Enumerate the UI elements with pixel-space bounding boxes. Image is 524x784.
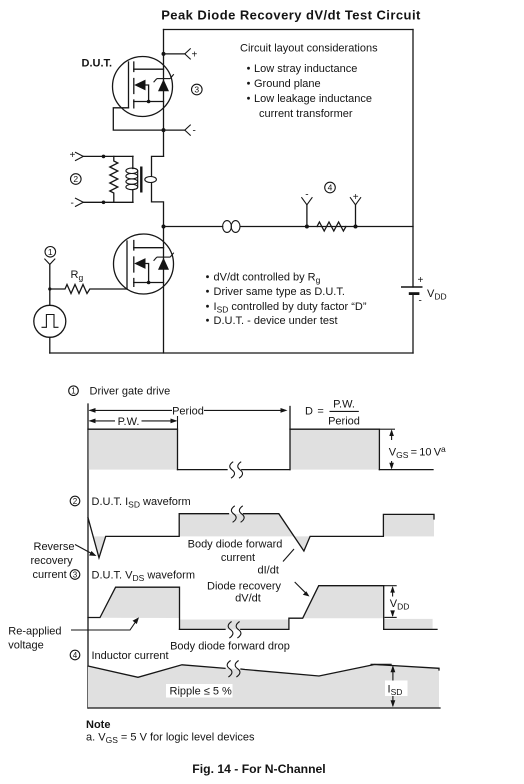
svg-text:dV/dt controlled by Rg: dV/dt controlled by Rg <box>214 272 321 286</box>
DUT substrate arrow <box>134 80 145 91</box>
axis time-zero vertical <box>87 404 89 708</box>
dimension arrow VDD <box>390 586 410 617</box>
waveform 4 label <box>70 650 168 662</box>
node 2 circled <box>71 174 82 185</box>
terminal + (transformer sense) <box>70 150 134 161</box>
terminal - (transformer sense) <box>71 198 134 209</box>
svg-text:Note: Note <box>86 719 110 731</box>
svg-text:dV/dt: dV/dt <box>235 593 261 605</box>
waveform 3 label <box>70 570 195 584</box>
WAVEFORM-SECTION <box>8 386 446 745</box>
inductor transformer secondary winding <box>126 156 138 202</box>
svg-text:2: 2 <box>73 174 78 184</box>
CIRCUIT-SECTION <box>34 30 447 354</box>
svg-text:Re-applied: Re-applied <box>8 626 61 638</box>
terminal gate drive input <box>44 259 55 265</box>
transformer core bar <box>140 167 142 193</box>
svg-text:Circuit layout considerations: Circuit layout considerations <box>240 43 378 55</box>
wire main vertical upper (drain bus) <box>163 30 165 157</box>
svg-text:current transformer: current transformer <box>259 108 353 120</box>
svg-text:+: + <box>70 150 76 161</box>
svg-text:dI/dt: dI/dt <box>258 565 279 577</box>
text bullet notes <box>206 272 367 328</box>
node dot sense + <box>102 155 106 159</box>
waveform 1 pulse 2 <box>290 429 379 469</box>
svg-text:-: - <box>419 296 422 307</box>
DUT channel dashes <box>133 62 135 108</box>
label diode recovery dV/dt <box>207 581 281 605</box>
resistor burden (transformer) <box>110 156 118 202</box>
waveform 4 baseline <box>88 707 440 709</box>
wire top edge <box>164 29 414 31</box>
tick VDD bottom <box>385 616 397 618</box>
svg-text:Diode recovery: Diode recovery <box>207 581 281 593</box>
svg-text:voltage: voltage <box>8 640 43 652</box>
waveform 2 trace <box>88 514 229 558</box>
svg-text:P.W.: P.W. <box>333 399 355 411</box>
svg-text:Body diode forward drop: Body diode forward drop <box>170 641 290 653</box>
terminal + (DUT drain) <box>164 48 198 60</box>
svg-text:Low leakage inductance: Low leakage inductance <box>254 93 372 105</box>
node dot terminal minus <box>305 225 309 229</box>
wire right edge upper <box>412 30 414 288</box>
svg-text:4: 4 <box>73 651 78 660</box>
wire output bus <box>164 226 223 228</box>
svg-text:+: + <box>192 50 198 61</box>
driver gate bar <box>126 241 128 289</box>
svg-text:+: + <box>418 275 424 286</box>
DUT source lead <box>134 101 164 103</box>
break squiggle <box>230 462 235 479</box>
svg-text:current: current <box>221 552 255 564</box>
svg-text:D.U.T. - device under test: D.U.T. - device under test <box>214 315 338 327</box>
svg-text:-: - <box>193 126 196 137</box>
node dot sense - <box>102 201 106 205</box>
dimension arrow ISD <box>385 665 408 707</box>
mosfet DUT (device under test) <box>113 57 174 117</box>
break squiggle wf4 <box>227 661 232 678</box>
wire right edge lower <box>412 294 414 353</box>
svg-text:2: 2 <box>73 497 78 506</box>
svg-text:recovery: recovery <box>31 555 74 567</box>
svg-text:Period: Period <box>172 405 204 417</box>
svg-text:3: 3 <box>73 570 78 579</box>
text circuit layout considerations <box>240 43 378 121</box>
svg-text:1: 1 <box>48 247 53 257</box>
break squiggle wf2 <box>231 506 236 523</box>
svg-text:P.W.: P.W. <box>118 416 140 428</box>
node dot Rg tap <box>48 287 51 290</box>
node 4 circled <box>325 182 336 193</box>
waveform 4 trace <box>88 665 225 678</box>
svg-text:ISD controlled by duty factor: ISD controlled by duty factor “D” <box>214 301 367 315</box>
svg-text:Period: Period <box>328 416 360 428</box>
driver drain lead <box>134 247 164 249</box>
waveform 3 trace <box>88 587 180 629</box>
wire pulse source to bottom <box>49 337 51 353</box>
node 1 circled <box>45 247 56 258</box>
note text <box>86 719 255 745</box>
leader dI/dt <box>283 549 294 562</box>
mosfet driver <box>114 234 174 294</box>
driver body diode <box>158 258 169 270</box>
leader arrow reverse recovery <box>75 545 93 555</box>
leader diode recovery <box>295 582 307 594</box>
tick PW edge <box>177 416 179 429</box>
tick VGS top <box>379 428 395 430</box>
battery VDD <box>401 275 447 307</box>
svg-text:Fig. 14 - For N-Channel: Fig. 14 - For N-Channel <box>192 762 325 776</box>
driver substrate arrow <box>134 258 145 269</box>
svg-text:3: 3 <box>194 85 199 95</box>
node 3 circled <box>192 84 203 95</box>
break squiggle wf3 <box>228 622 233 639</box>
svg-text:1: 1 <box>71 387 76 396</box>
svg-text:Low stray inductance: Low stray inductance <box>254 63 357 75</box>
DUT gate bar <box>128 62 130 108</box>
label re-applied voltage <box>8 626 61 652</box>
svg-text:-: - <box>71 198 74 209</box>
node dot terminal plus <box>354 225 358 229</box>
svg-text:Ground plane: Ground plane <box>254 78 321 90</box>
svg-text:Reverse: Reverse <box>34 541 75 553</box>
driver channel dashes <box>133 241 135 287</box>
svg-text:+: + <box>353 192 359 203</box>
wire main vertical lower <box>163 227 165 354</box>
label reverse recovery current <box>31 541 75 581</box>
svg-text:D =: D = <box>305 406 324 418</box>
node dot inductor junction <box>162 225 166 229</box>
svg-text:Peak Diode Recovery dV/dt Test: Peak Diode Recovery dV/dt Test Circuit <box>161 8 421 23</box>
resistor load <box>317 222 346 231</box>
waveform 2 label <box>70 496 191 510</box>
wire transformer jog left <box>152 156 164 176</box>
terminal + (ripple sense) <box>350 192 361 227</box>
svg-text:Body diode forward: Body diode forward <box>188 539 283 551</box>
tick VDD top <box>384 585 397 587</box>
svg-text:Inductor current: Inductor current <box>92 650 169 662</box>
terminal - (ripple sense) <box>301 189 312 226</box>
svg-text:current: current <box>33 569 67 581</box>
wire bottom edge <box>50 352 413 354</box>
leader re-applied <box>71 621 137 631</box>
label ripple <box>166 684 233 698</box>
driver source lead <box>134 282 164 284</box>
waveform 2 gray fills <box>94 536 106 557</box>
svg-text:4: 4 <box>328 183 333 193</box>
waveform 1 low line <box>178 469 228 471</box>
dimension arrow Period <box>89 405 288 417</box>
terminal - (DUT source) <box>164 125 196 137</box>
svg-text:Driver gate drive: Driver gate drive <box>90 386 171 398</box>
svg-text:D.U.T.: D.U.T. <box>82 58 113 70</box>
inductor load <box>223 221 240 233</box>
dimension arrow VGS <box>389 429 446 469</box>
wire terminal1 down <box>49 264 51 305</box>
svg-text:Driver same type as D.U.T.: Driver same type as D.U.T. <box>214 286 345 298</box>
svg-text:D.U.T. ISD waveform: D.U.T. ISD waveform <box>92 496 191 510</box>
waveform 1 label <box>69 386 171 398</box>
node dot DUT drain <box>162 52 166 56</box>
svg-text:-: - <box>305 189 308 200</box>
tick ISD peak <box>371 663 392 665</box>
DUT body diode <box>158 79 169 91</box>
waveform 4 gray fill <box>88 665 439 708</box>
wire transformer jog right <box>152 183 164 227</box>
pulse generator source <box>34 305 66 337</box>
svg-text:Ripple ≤ 5 %: Ripple ≤ 5 % <box>170 686 233 698</box>
formula D = P.W. / Period <box>305 399 360 428</box>
DUT drain lead <box>134 68 164 70</box>
wire DUT gate to source tie <box>113 108 163 130</box>
node dot DUT source <box>162 128 166 132</box>
resistor Rg <box>50 285 127 294</box>
inductor transformer primary loop <box>145 177 157 183</box>
waveform 3 gray fills <box>100 587 180 618</box>
dimension arrow P.W. <box>89 416 178 428</box>
label body diode forward current <box>188 539 283 565</box>
waveform 1 pulse 1 <box>89 429 178 469</box>
